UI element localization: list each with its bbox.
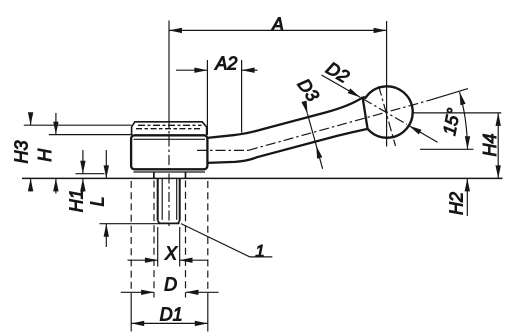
- svg-text:D3: D3: [294, 75, 324, 105]
- svg-text:L: L: [87, 196, 107, 206]
- svg-text:H: H: [35, 148, 55, 162]
- svg-text:X: X: [164, 244, 178, 264]
- svg-text:D2: D2: [323, 58, 353, 87]
- svg-text:D: D: [164, 275, 177, 295]
- svg-text:D1: D1: [160, 305, 183, 325]
- svg-text:A: A: [271, 15, 284, 35]
- svg-text:H1: H1: [67, 189, 87, 212]
- svg-text:A2: A2: [214, 53, 237, 73]
- svg-text:15°: 15°: [439, 106, 464, 137]
- svg-text:1: 1: [255, 241, 264, 260]
- svg-text:H4: H4: [480, 133, 500, 156]
- svg-text:H3: H3: [12, 140, 32, 163]
- svg-text:H2: H2: [447, 192, 467, 215]
